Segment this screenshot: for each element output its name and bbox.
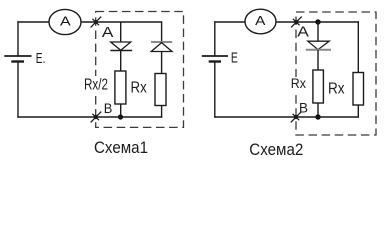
svg-text:A: A <box>297 24 309 40</box>
svg-text:Схема2: Схема2 <box>249 141 303 159</box>
wire node A to top-right corner <box>318 21 359 23</box>
terminal cross mark bottom-left scheme1 <box>91 112 102 123</box>
wire top corner down to diode VD2 <box>161 21 163 42</box>
battery E1 (cell) long plate <box>4 55 31 57</box>
svg-text:B: B <box>299 101 308 117</box>
node A junction dot scheme2 <box>315 19 320 24</box>
svg-text:Rx: Rx <box>131 79 147 96</box>
bottom wire scheme2 <box>214 116 359 118</box>
resistor Rx/2 body <box>115 71 126 104</box>
wire top-left to ammeter A1 <box>17 21 49 23</box>
wire ammeter A2 to node A <box>276 21 318 23</box>
ammeter A2 circle <box>245 9 276 34</box>
wire battery1 top lead up <box>17 21 19 56</box>
node B junction dot scheme1 <box>118 114 123 119</box>
wire resistor Rx/2 to node B <box>120 104 122 117</box>
diode VD1 (pointing down) triangle <box>111 42 131 50</box>
svg-text:A: A <box>60 13 71 28</box>
white gap in dashed border behind Rx label <box>290 77 308 94</box>
wire top-left to ammeter A2 <box>214 21 245 23</box>
node B junction dot scheme2 <box>315 114 320 119</box>
wire ammeter A1 to node A region <box>81 21 162 23</box>
resistor Rx body (scheme1) <box>155 74 166 106</box>
wire node A down to diode VD1 <box>120 22 122 42</box>
terminal cross mark top-left scheme1 <box>91 17 102 28</box>
wire resistor Rx (scheme1) down to bottom wire <box>161 106 163 118</box>
terminal cross mark bottom-left scheme2 <box>291 112 302 123</box>
wire battery2 top lead up <box>214 21 216 56</box>
dashed box of scheme 2 <box>296 12 376 135</box>
battery E2 short plate <box>209 60 221 62</box>
wire top-right corner down to resistor Rx right (scheme2) <box>357 21 359 72</box>
bottom wire scheme1 <box>17 116 162 118</box>
diode VD2 (pointing up) triangle <box>151 43 172 52</box>
svg-text:E: E <box>231 51 238 67</box>
battery E1 short plate <box>11 60 24 62</box>
wire diode VD3 to resistor Rx left (scheme2) <box>317 50 319 70</box>
svg-text:E.: E. <box>36 51 46 67</box>
diode VD3 cathode bar (gray) <box>306 49 331 51</box>
resistor Rx right body (scheme2) <box>353 73 364 106</box>
terminal cross mark top-left scheme2 <box>291 17 302 28</box>
wire battery2 bottom lead down <box>214 62 216 118</box>
svg-text:Схема1: Схема1 <box>94 139 148 157</box>
svg-text:A: A <box>102 25 114 41</box>
wire resistor Rx right down to bottom wire (scheme2) <box>357 105 359 118</box>
resistor Rx left body (scheme2) <box>313 70 324 103</box>
battery E2 long plate <box>202 55 228 57</box>
wire node A down to diode VD3 <box>317 22 319 41</box>
diode VD2 cathode bar (gray) <box>151 41 172 43</box>
svg-text:Rx: Rx <box>328 80 345 97</box>
diode VD3 (pointing down) triangle <box>308 41 329 49</box>
svg-text:A: A <box>255 14 266 28</box>
wire diode VD2 to resistor Rx (scheme1) <box>161 52 163 74</box>
ammeter A1 circle <box>49 9 81 34</box>
svg-text:Rx: Rx <box>291 75 306 91</box>
dashed box of scheme 1 <box>96 12 184 128</box>
wire battery1 bottom lead down <box>17 62 19 118</box>
svg-text:Rx/2: Rx/2 <box>84 77 108 94</box>
white gap in dashed border behind Rx/2 label <box>84 76 110 95</box>
svg-text:B: B <box>104 101 113 117</box>
wire resistor Rx left to node B (scheme2) <box>317 103 319 117</box>
wire diode VD1 to resistor Rx/2 <box>120 51 122 72</box>
diode VD1 cathode bar <box>110 50 132 52</box>
